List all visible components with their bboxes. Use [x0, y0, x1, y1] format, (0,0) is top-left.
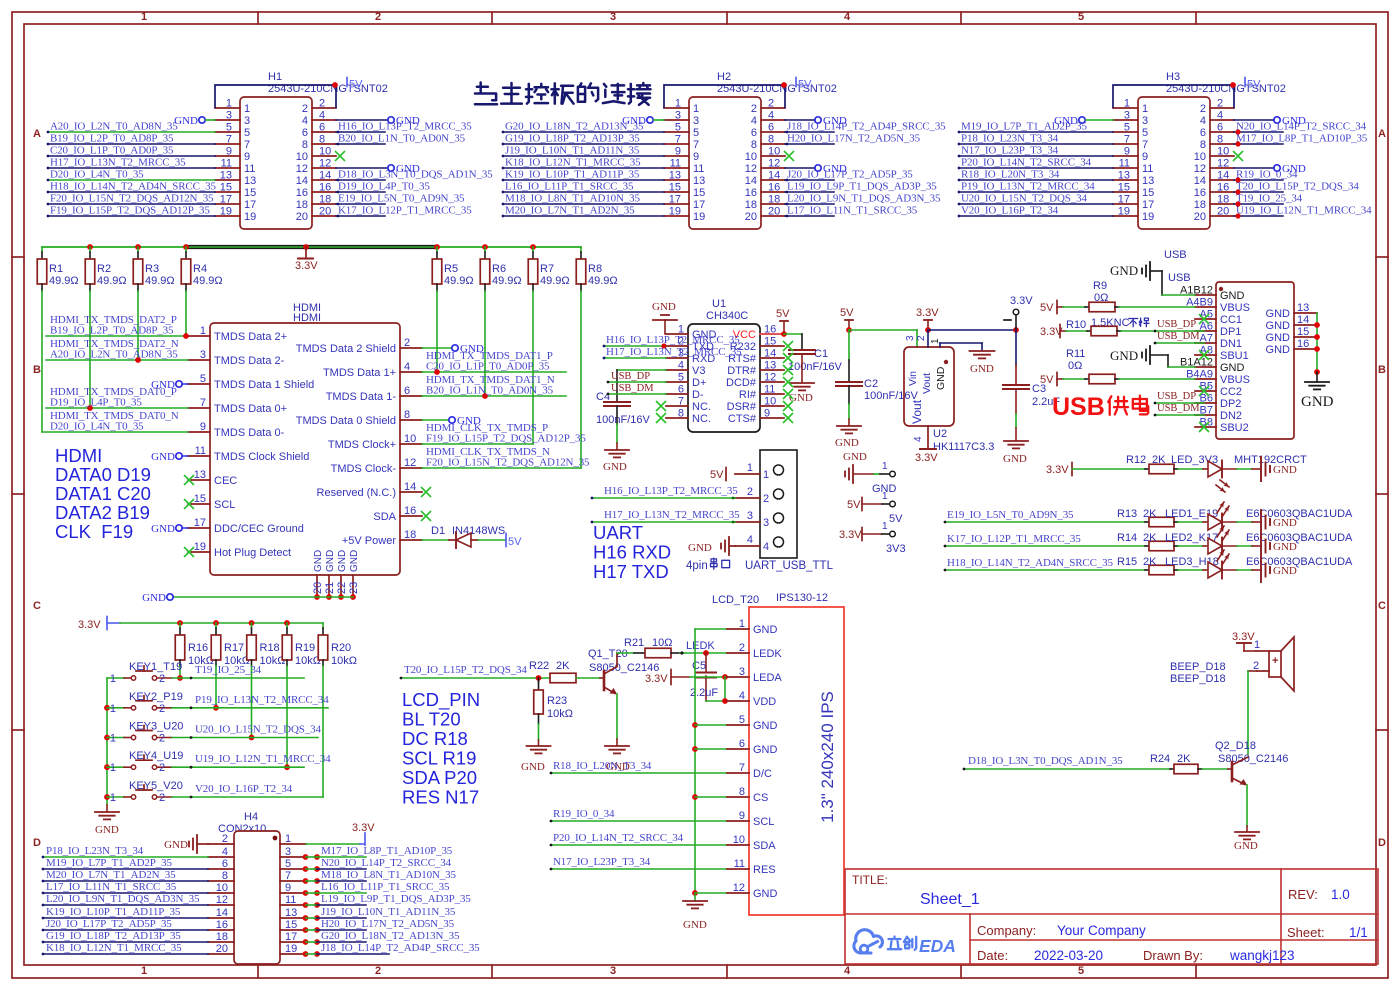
junction LCD trunk — [692, 722, 698, 728]
svg-text:M17_IO_L8P_T1_AD10P_35: M17_IO_L8P_T1_AD10P_35 — [321, 845, 453, 857]
svg-text:N17_IO_L23P_T3_34: N17_IO_L23P_T3_34 — [961, 145, 1059, 157]
svg-text:16: 16 — [404, 505, 416, 517]
svg-text:VBUS: VBUS — [1220, 302, 1250, 314]
wire net B19_IO_L2P_T0_AD8P_35 — [46, 335, 188, 337]
svg-text:K18_IO_L12N_T1_MRCC_35: K18_IO_L12N_T1_MRCC_35 — [505, 157, 641, 169]
wire net A20_IO_L2N_T0_AD8N_35 — [46, 359, 188, 361]
svg-text:GND: GND — [142, 592, 166, 604]
resistor R22 2K — [550, 673, 576, 683]
svg-text:B20_IO_L1N_T0_AD0N_35: B20_IO_L1N_T0_AD0N_35 — [338, 133, 466, 145]
power flag 5V H3 — [1244, 78, 1246, 87]
svg-text:1: 1 — [285, 833, 291, 845]
svg-text:H18_IO_L14N_T2_AD4N_SRCC_35: H18_IO_L14N_T2_AD4N_SRCC_35 — [947, 557, 1113, 569]
no-connect HDMI pin16 — [421, 511, 431, 521]
junction LCD trunk — [692, 890, 698, 896]
svg-text:USB_DM: USB_DM — [611, 383, 654, 394]
svg-text:H16 RXD: H16 RXD — [593, 542, 671, 563]
junction 3.3V rail — [434, 244, 440, 250]
svg-text:GND: GND — [1220, 290, 1245, 302]
svg-text:17: 17 — [285, 931, 297, 943]
wire U2 GND pin1 — [939, 343, 941, 347]
junction USB GND — [1314, 346, 1320, 352]
svg-text:100nF/16V: 100nF/16V — [864, 390, 918, 402]
svg-text:2: 2 — [916, 335, 927, 341]
svg-text:8: 8 — [1200, 139, 1206, 151]
text sheet title 与主控板的连接 — [475, 83, 497, 105]
svg-text:17: 17 — [194, 517, 206, 529]
svg-text:H16_IO_L13P_T2_MRCC_35: H16_IO_L13P_T2_MRCC_35 — [604, 485, 738, 497]
svg-text:T20_IO_L15P_T2_DQS_34: T20_IO_L15P_T2_DQS_34 — [404, 664, 527, 676]
svg-text:P18_IO_L23N_T3_34: P18_IO_L23N_T3_34 — [961, 133, 1059, 145]
wire D1 to 5V — [478, 539, 505, 541]
svg-text:3: 3 — [1124, 110, 1130, 122]
svg-text:3.3V: 3.3V — [915, 452, 938, 464]
no-connect H2 pin10 — [784, 151, 794, 161]
LED LED1_E19 — [1208, 514, 1222, 530]
connector UART_USB_TTL — [760, 450, 797, 558]
svg-text:9: 9 — [226, 146, 232, 158]
svg-text:U20_IO_L15N_T2_DQS_34: U20_IO_L15N_T2_DQS_34 — [961, 193, 1087, 205]
svg-text:CC1: CC1 — [1220, 314, 1242, 326]
wire net U20_IO_L15N_T2_DQS_34 — [959, 203, 1113, 205]
svg-text:D20_IO_L4N_T0_35: D20_IO_L4N_T0_35 — [50, 421, 144, 433]
svg-text:2: 2 — [159, 703, 165, 715]
svg-text:GND: GND — [1273, 541, 1297, 553]
svg-text:L17_IO_L11N_T1_SRCC_35: L17_IO_L11N_T1_SRCC_35 — [787, 205, 918, 217]
pin U2 4 Vout bottom — [927, 426, 929, 449]
svg-text:R9: R9 — [1093, 280, 1107, 292]
svg-text:15: 15 — [693, 187, 705, 199]
svg-text:5V: 5V — [1040, 302, 1054, 314]
svg-text:10: 10 — [216, 882, 228, 894]
svg-text:3.3V: 3.3V — [1010, 295, 1033, 307]
svg-text:E6C0603QBAC1UDA: E6C0603QBAC1UDA — [1246, 508, 1353, 520]
junction C5 top — [703, 650, 709, 656]
svg-text:GND: GND — [325, 550, 336, 572]
wire net F20_IO_L15N_T2_DQS_AD12N_35 — [422, 467, 581, 469]
svg-text:DATA1 C20: DATA1 C20 — [55, 483, 151, 504]
svg-text:10: 10 — [404, 433, 416, 445]
svg-text:19: 19 — [669, 206, 681, 218]
svg-text:2: 2 — [1200, 103, 1206, 115]
wire net M17_IO_L8P_T1_AD10P_35 — [1234, 143, 1283, 145]
svg-text:14: 14 — [1194, 175, 1206, 187]
wire USB GND bus — [1316, 313, 1318, 372]
svg-text:C: C — [1378, 600, 1386, 612]
svg-text:D: D — [33, 837, 41, 849]
svg-text:D/C: D/C — [753, 768, 772, 780]
svg-text:2: 2 — [739, 642, 745, 654]
wire H3 pin1-pin2 5V loop — [1113, 85, 1234, 108]
switch KEY2_P19 — [107, 707, 124, 709]
svg-text:DTR#: DTR# — [727, 365, 757, 377]
svg-text:10kΩ: 10kΩ — [331, 655, 357, 667]
junction 3.3V rail — [87, 244, 93, 250]
svg-text:5V: 5V — [1247, 79, 1261, 91]
resistor R4 49.9 — [185, 247, 187, 252]
svg-text:GND: GND — [521, 761, 545, 773]
svg-text:3.3V: 3.3V — [1232, 631, 1255, 643]
junction 3.3V rail — [482, 244, 488, 250]
svg-text:K19_IO_L10P_T1_AD11P_35: K19_IO_L10P_T1_AD11P_35 — [46, 906, 181, 918]
svg-text:B20_IO_L1N_T0_AD0N_35: B20_IO_L1N_T0_AD0N_35 — [426, 385, 554, 397]
svg-text:D1: D1 — [431, 525, 445, 537]
svg-text:BEEP_D18: BEEP_D18 — [1170, 673, 1226, 685]
svg-text:GND: GND — [753, 888, 778, 900]
svg-text:R23: R23 — [547, 695, 567, 707]
svg-text:4: 4 — [1200, 115, 1206, 127]
svg-text:13: 13 — [194, 469, 206, 481]
svg-text:6: 6 — [222, 858, 228, 870]
svg-text:H17_IO_L13N_T2_MRCC_35: H17_IO_L13N_T2_MRCC_35 — [604, 509, 740, 521]
svg-text:R2: R2 — [97, 263, 111, 275]
svg-text:13: 13 — [693, 175, 705, 187]
svg-text:4: 4 — [739, 690, 745, 702]
svg-text:100nF/16V: 100nF/16V — [788, 361, 842, 373]
svg-text:12: 12 — [1194, 163, 1206, 175]
svg-text:A: A — [33, 128, 41, 140]
wire net H16_IO_L13P_T2_MRCC_35 — [336, 131, 385, 133]
svg-text:14: 14 — [296, 175, 308, 187]
svg-text:14: 14 — [216, 907, 228, 919]
svg-text:P20_IO_L14N_T2_SRCC_34: P20_IO_L14N_T2_SRCC_34 — [553, 832, 684, 844]
svg-text:49.9Ω: 49.9Ω — [588, 275, 618, 287]
switch KEY5_V20 — [107, 796, 124, 798]
wire net H17_IO_L13N_T2_MRCC_35 UART — [592, 521, 735, 523]
resistor R7 49.9 — [532, 247, 534, 252]
svg-text:9: 9 — [764, 408, 770, 420]
svg-text:A20_IO_L2N_T0_AD8N_35: A20_IO_L2N_T0_AD8N_35 — [50, 349, 178, 361]
power flag 5V H2 — [795, 78, 797, 87]
svg-text:SBU2: SBU2 — [1220, 422, 1249, 434]
svg-text:8: 8 — [768, 134, 774, 146]
svg-text:2K: 2K — [1143, 508, 1157, 520]
svg-text:18: 18 — [745, 199, 757, 211]
svg-text:U19_IO_L12N_T1_MRCC_34: U19_IO_L12N_T1_MRCC_34 — [195, 753, 331, 765]
resistor R21 10R — [617, 652, 634, 654]
wire net C20_IO_L1P_T0_AD0P_35 — [48, 155, 215, 157]
svg-text:1.0: 1.0 — [1331, 887, 1350, 902]
junction key row — [213, 705, 219, 711]
svg-text:13: 13 — [220, 170, 232, 182]
capacitor C2 100nF/16V — [848, 330, 850, 360]
svg-text:5: 5 — [1078, 965, 1084, 977]
svg-text:10: 10 — [296, 151, 308, 163]
svg-text:SDA: SDA — [753, 840, 776, 852]
svg-text:NC.: NC. — [692, 413, 711, 425]
svg-text:12: 12 — [404, 457, 416, 469]
svg-text:R20: R20 — [331, 642, 351, 654]
svg-text:7: 7 — [1124, 134, 1130, 146]
svg-text:HK1117C3.3: HK1117C3.3 — [933, 441, 994, 453]
svg-text:1: 1 — [110, 703, 116, 715]
wire Q2 emitter to GND — [1246, 785, 1248, 826]
wire net T19_IO_25_34 — [172, 677, 304, 679]
svg-text:17: 17 — [220, 194, 232, 206]
wire net L20_IO_L9N_T1_DQS_AD3N_35 — [43, 904, 208, 906]
junction 3.3V — [925, 327, 931, 333]
pin 21 HDMI GND — [328, 575, 330, 597]
svg-text:16: 16 — [216, 919, 228, 931]
wire R24 to Q2 base — [1202, 768, 1228, 770]
svg-text:4: 4 — [844, 965, 851, 977]
svg-text:5V: 5V — [710, 469, 724, 481]
svg-text:8: 8 — [404, 409, 410, 421]
wire net B19_IO_L2P_T0_AD8P_35 — [48, 143, 215, 145]
svg-text:H16_IO_L13P_T2_MRCC_35: H16_IO_L13P_T2_MRCC_35 — [338, 121, 472, 133]
svg-text:4: 4 — [302, 115, 308, 127]
svg-text:J20_IO_L17P_T2_AD5P_35: J20_IO_L17P_T2_AD5P_35 — [787, 169, 913, 181]
svg-text:M19_IO_L7P_T1_AD2P_35: M19_IO_L7P_T1_AD2P_35 — [46, 857, 172, 869]
svg-text:1: 1 — [882, 491, 888, 502]
no-connect USB pin — [1199, 350, 1209, 360]
wire H1 pin4 GND — [336, 119, 388, 121]
svg-text:DC R18: DC R18 — [402, 728, 468, 749]
svg-text:7: 7 — [200, 397, 206, 409]
svg-text:3: 3 — [610, 11, 616, 23]
svg-text:2: 2 — [375, 11, 381, 23]
svg-text:M18_IO_L8N_T1_AD10N_35: M18_IO_L8N_T1_AD10N_35 — [321, 869, 456, 881]
svg-text:A: A — [1378, 128, 1386, 140]
svg-text:5: 5 — [1124, 122, 1130, 134]
svg-text:9: 9 — [1124, 146, 1130, 158]
svg-text:6: 6 — [319, 122, 325, 134]
svg-text:11: 11 — [1119, 158, 1130, 170]
wire net J19_IO_L10N_T1_AD11N_35 — [503, 155, 664, 157]
svg-text:17: 17 — [1118, 194, 1130, 206]
wire net H20_IO_L17N_T2_AD5N_35 — [785, 143, 834, 145]
svg-text:49.9Ω: 49.9Ω — [97, 275, 127, 287]
power flag 3.3V H4 pin1 — [306, 843, 360, 845]
junction key bus — [104, 735, 110, 741]
svg-text:CTS#: CTS# — [728, 413, 757, 425]
svg-text:7: 7 — [739, 762, 745, 774]
svg-text:19: 19 — [194, 541, 206, 553]
svg-text:TMDS Clock-: TMDS Clock- — [331, 463, 397, 475]
no-connect U1 pin15 — [783, 341, 793, 351]
wire net K19_IO_L10P_T1_AD11P_35 — [503, 179, 664, 181]
power flag 3.3V U2 pin4 — [920, 448, 936, 450]
svg-text:R19_IO_0_34: R19_IO_0_34 — [1236, 169, 1298, 181]
svg-text:LEDK: LEDK — [753, 648, 782, 660]
svg-text:12: 12 — [216, 894, 228, 906]
svg-text:14: 14 — [768, 170, 780, 182]
wire R19 to key row — [286, 666, 288, 767]
svg-text:H17_IO_L13N_T2_MRCC_35: H17_IO_L13N_T2_MRCC_35 — [606, 346, 742, 358]
svg-text:18: 18 — [296, 199, 308, 211]
svg-text:4: 4 — [844, 11, 851, 23]
svg-text:6: 6 — [1217, 122, 1223, 134]
svg-text:GND: GND — [683, 919, 707, 931]
svg-text:DSR#: DSR# — [727, 401, 757, 413]
wire net H16_IO_L13P_T2_MRCC_35 UART — [592, 497, 735, 499]
junction key row — [249, 735, 255, 741]
ground USB GND pins — [1305, 381, 1329, 383]
svg-text:3.3V: 3.3V — [839, 529, 862, 541]
svg-text:9: 9 — [244, 151, 250, 163]
wire net M18_IO_L8N_T1_AD10N_35 — [503, 203, 664, 205]
svg-text:GND: GND — [652, 301, 676, 313]
svg-text:3: 3 — [905, 335, 916, 341]
wire R5 to HDMI — [436, 291, 438, 372]
wire net U20_IO_L15N_T2_DQS_34 — [172, 737, 318, 739]
svg-text:C20_IO_L1P_T0_AD0P_35: C20_IO_L1P_T0_AD0P_35 — [50, 145, 174, 157]
resistor R18 10k — [251, 623, 253, 628]
svg-text:T19_IO_25_34: T19_IO_25_34 — [1236, 193, 1303, 205]
svg-text:H18_IO_L14N_T2_AD4N_SRCC_35: H18_IO_L14N_T2_AD4N_SRCC_35 — [50, 181, 216, 193]
svg-text:14: 14 — [404, 481, 416, 493]
svg-text:LEDA: LEDA — [753, 672, 782, 684]
svg-text:TMDS Clock+: TMDS Clock+ — [328, 439, 396, 451]
svg-text:5: 5 — [693, 127, 699, 139]
pin 22 HDMI GND — [340, 575, 342, 597]
wire net T20_IO_L15P_T2_DQS_34 — [1234, 191, 1283, 193]
svg-text:DP1: DP1 — [1220, 326, 1241, 338]
svg-text:9: 9 — [675, 146, 681, 158]
resistor R23 10k — [538, 678, 540, 682]
svg-text:10: 10 — [745, 151, 757, 163]
svg-text:8: 8 — [302, 139, 308, 151]
no-connect U1 pin11 — [783, 389, 793, 399]
svg-text:P19_IO_L13N_T2_MRCC_34: P19_IO_L13N_T2_MRCC_34 — [961, 181, 1095, 193]
ground C4 — [605, 449, 629, 451]
switch KEY1_T19 — [107, 677, 124, 679]
svg-text:E19_IO_L5N_T0_AD9N_35: E19_IO_L5N_T0_AD9N_35 — [947, 509, 1074, 521]
svg-text:6: 6 — [751, 127, 757, 139]
wire net D19_IO_L4P_T0_35 — [336, 191, 385, 193]
wire U1 V3 to C4 — [617, 369, 666, 371]
wire net M20_IO_L7N_T1_AD2N_35 — [503, 215, 664, 217]
svg-text:5: 5 — [285, 858, 291, 870]
svg-text:GND: GND — [753, 720, 778, 732]
svg-text:D: D — [1378, 837, 1386, 849]
svg-text:TMDS Data 1-: TMDS Data 1- — [326, 391, 397, 403]
power flag 5V H1 — [346, 78, 348, 87]
svg-text:R19_IO_0_34: R19_IO_0_34 — [553, 808, 615, 820]
ground LCD — [694, 893, 696, 901]
svg-text:K17_IO_L12P_T1_MRCC_35: K17_IO_L12P_T1_MRCC_35 — [947, 533, 1081, 545]
svg-text:3: 3 — [763, 517, 769, 529]
svg-text:17: 17 — [669, 194, 681, 206]
svg-text:V20_IO_L16P_T2_34: V20_IO_L16P_T2_34 — [961, 205, 1059, 217]
svg-text:3.3V: 3.3V — [78, 619, 101, 631]
svg-text:GND: GND — [313, 550, 324, 572]
svg-text:DN2: DN2 — [1220, 410, 1242, 422]
wire net P18_IO_L23N_T3_34 — [43, 856, 208, 858]
svg-text:3: 3 — [226, 110, 232, 122]
ground LED1_E19 — [1222, 521, 1237, 523]
power flag 5V D1 — [505, 534, 507, 547]
svg-text:6: 6 — [1200, 127, 1206, 139]
svg-text:7: 7 — [675, 134, 681, 146]
svg-text:13: 13 — [1142, 175, 1154, 187]
svg-text:V20_IO_L16P_T2_34: V20_IO_L16P_T2_34 — [195, 783, 293, 795]
pin 20 HDMI GND — [316, 575, 318, 597]
wire R4 to HDMI — [185, 291, 187, 336]
svg-text:F20_IO_L15N_T2_DQS_AD12N_35: F20_IO_L15N_T2_DQS_AD12N_35 — [50, 193, 214, 205]
svg-text:1: 1 — [110, 673, 116, 685]
svg-text:R17: R17 — [224, 642, 244, 654]
svg-text:R14: R14 — [1117, 532, 1137, 544]
wire net J20_IO_L17P_T2_AD5P_35 — [43, 929, 208, 931]
svg-text:1: 1 — [763, 469, 769, 481]
svg-text:8: 8 — [678, 408, 684, 420]
svg-text:11: 11 — [244, 163, 255, 175]
wire net USB_DP to DP1 — [1121, 330, 1204, 332]
junction LCD trunk — [692, 746, 698, 752]
svg-text:TMDS Data 2 Shield: TMDS Data 2 Shield — [296, 343, 396, 355]
wire net D18_IO_L3N_T0_DQS_AD1N_35 — [964, 768, 1170, 770]
svg-text:21: 21 — [324, 582, 336, 594]
svg-text:U19_IO_L12N_T1_MRCC_34: U19_IO_L12N_T1_MRCC_34 — [1236, 205, 1372, 217]
resistor R3 49.9 — [137, 247, 139, 252]
svg-text:7: 7 — [244, 139, 250, 151]
wire net N20_IO_L14P_T2_SRCC_34 — [303, 866, 309, 872]
svg-text:Company:: Company: — [977, 923, 1036, 938]
svg-text:GND: GND — [1266, 320, 1291, 332]
wire R16 to key row — [179, 666, 181, 678]
svg-text:SCL: SCL — [214, 499, 235, 511]
logo LCEDA — [854, 930, 883, 953]
wire net V20_IO_L16P_T2_34 — [172, 796, 323, 798]
svg-text:D19_IO_L4P_T0_35: D19_IO_L4P_T0_35 — [338, 181, 430, 193]
wire net USB_DM to U1 D- — [608, 393, 666, 395]
svg-text:3: 3 — [200, 349, 206, 361]
svg-text:J20_IO_L17P_T2_AD5P_35: J20_IO_L17P_T2_AD5P_35 — [46, 918, 172, 930]
svg-text:12: 12 — [745, 163, 757, 175]
wire R9 to VBUS — [1119, 306, 1195, 308]
svg-text:3.3V: 3.3V — [1046, 464, 1069, 476]
svg-text:3: 3 — [675, 110, 681, 122]
svg-text:4: 4 — [747, 534, 753, 546]
svg-text:N20_IO_L14P_T2_SRCC_34: N20_IO_L14P_T2_SRCC_34 — [1236, 121, 1367, 133]
junction key row — [177, 675, 183, 681]
svg-text:R4: R4 — [193, 263, 207, 275]
svg-text:13: 13 — [1118, 170, 1130, 182]
wire R1 to HDMI — [41, 291, 43, 432]
svg-text:11: 11 — [693, 163, 704, 175]
svg-text:8: 8 — [751, 139, 757, 151]
wire Q1 emitter to GND — [616, 694, 618, 739]
svg-text:REV:: REV: — [1288, 887, 1318, 902]
svg-text:3: 3 — [1142, 115, 1148, 127]
junction — [183, 333, 189, 339]
ground key bus — [106, 805, 108, 812]
svg-text:11: 11 — [734, 858, 745, 870]
junction key bus — [104, 705, 110, 711]
svg-text:19: 19 — [1142, 211, 1154, 223]
wire net M18_IO_L8N_T1_AD10N_35 — [303, 878, 309, 884]
wire net L19_IO_L9P_T1_DQS_AD3P_35 — [303, 902, 309, 908]
pin USB 13 GND — [1294, 312, 1317, 314]
wire R22 to Q1 base — [576, 677, 600, 679]
svg-text:12: 12 — [319, 158, 331, 170]
wire net F20_IO_L15N_T2_DQS_AD12N_35 — [48, 203, 215, 205]
svg-text:5V: 5V — [798, 79, 812, 91]
junction key rail — [249, 620, 255, 626]
svg-text:Q2_D18: Q2_D18 — [1215, 740, 1256, 752]
svg-text:+: + — [1272, 655, 1278, 667]
wire R11 to VBUS2 — [1119, 378, 1195, 380]
svg-text:H20_IO_L17N_T2_AD5N_35: H20_IO_L17N_T2_AD5N_35 — [787, 133, 921, 145]
svg-text:T19_IO_25_34: T19_IO_25_34 — [195, 664, 262, 676]
junction R23 — [536, 675, 542, 681]
svg-text:BL T20: BL T20 — [402, 709, 461, 730]
resistor R13 2K — [1145, 521, 1149, 523]
svg-text:S8050_C2146: S8050_C2146 — [1218, 753, 1288, 765]
svg-text:CC2: CC2 — [1220, 386, 1242, 398]
no-connect H1 pin10 — [335, 151, 345, 161]
